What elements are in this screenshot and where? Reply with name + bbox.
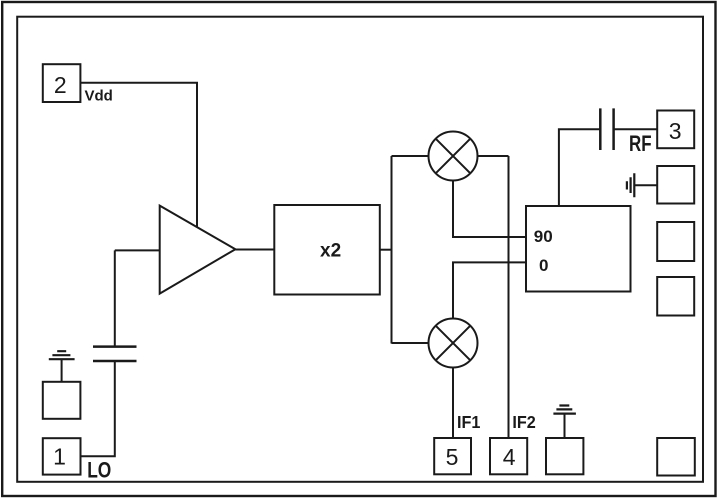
svg-text:Vdd: Vdd bbox=[85, 87, 113, 104]
svg-text:3: 3 bbox=[669, 118, 682, 144]
svg-text:5: 5 bbox=[446, 444, 459, 470]
svg-text:x2: x2 bbox=[320, 240, 341, 261]
svg-text:LO: LO bbox=[87, 459, 111, 483]
svg-text:1: 1 bbox=[53, 444, 66, 470]
svg-text:2: 2 bbox=[54, 72, 67, 98]
svg-text:4: 4 bbox=[503, 444, 516, 470]
svg-text:IF1: IF1 bbox=[457, 412, 481, 432]
svg-text:0: 0 bbox=[539, 256, 548, 275]
svg-text:IF2: IF2 bbox=[512, 412, 535, 432]
svg-text:RF: RF bbox=[629, 132, 652, 157]
svg-text:90: 90 bbox=[534, 227, 553, 246]
